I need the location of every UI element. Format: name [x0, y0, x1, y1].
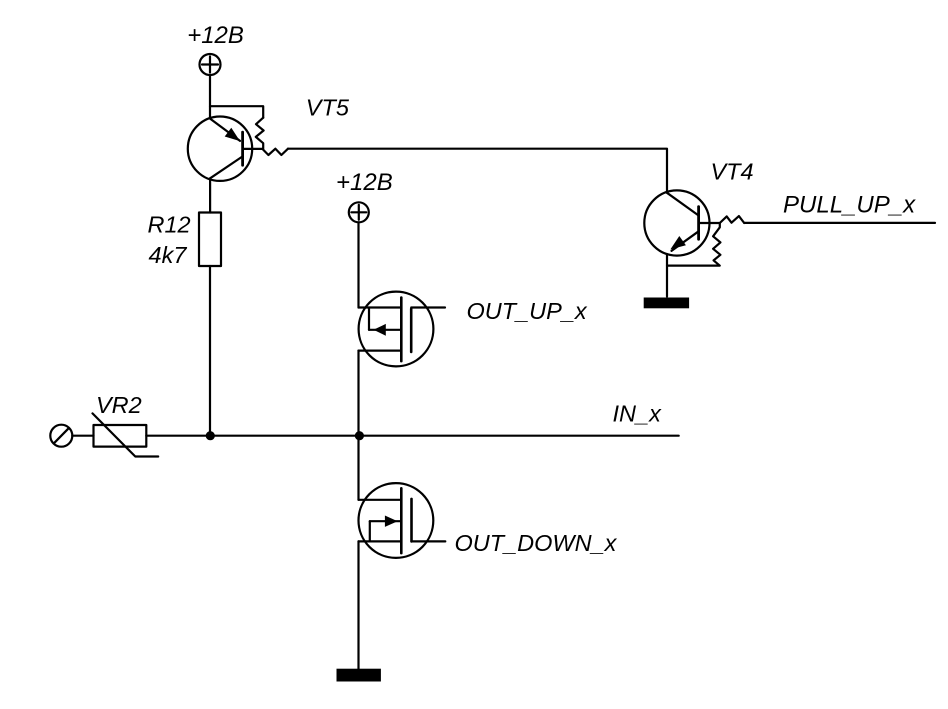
svg-text:VT5: VT5 [306, 95, 350, 121]
svg-text:VR2: VR2 [96, 392, 142, 418]
svg-text:IN_x: IN_x [613, 401, 663, 427]
svg-text:OUT_DOWN_x: OUT_DOWN_x [455, 530, 618, 556]
svg-text:+12B: +12B [187, 22, 244, 49]
svg-text:VT4: VT4 [711, 159, 754, 185]
svg-text:4k7: 4k7 [149, 242, 188, 268]
svg-text:OUT_UP_x: OUT_UP_x [467, 298, 588, 324]
svg-text:R12: R12 [148, 212, 191, 238]
svg-text:+12B: +12B [336, 169, 393, 196]
svg-text:PULL_UP_x: PULL_UP_x [783, 192, 916, 219]
